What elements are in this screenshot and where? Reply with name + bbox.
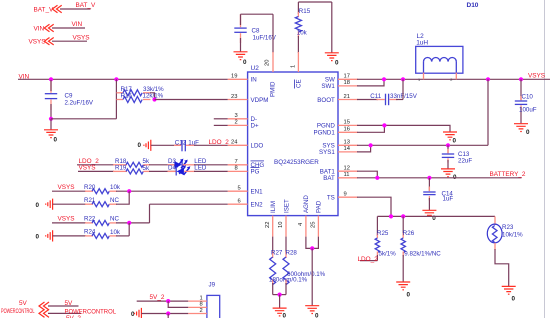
svg-text:R25: R25 [377,230,389,237]
svg-text:15: 15 [344,120,350,126]
wire D3 to pin 7 [183,164,196,166]
svg-text:25: 25 [311,222,317,228]
svg-text:BAT_V: BAT_V [34,7,55,14]
ground 0 (C14) [422,210,436,222]
svg-text:VIN: VIN [72,21,83,28]
svg-text:EN2: EN2 [251,202,264,209]
svg-text:4: 4 [298,222,304,226]
ground 0 (R15) [325,53,339,67]
node TS drop [389,214,393,218]
pin 6 EN2 [228,203,248,205]
resistor R21 [84,197,119,207]
ground 0 (LDO row, sideways) [138,140,182,151]
wire R15 top to ground [331,2,333,53]
ground 0 (R26) [396,282,410,299]
ground 0 (J9, sideways) [131,308,188,318]
wire EN2 down to R22 row [149,204,151,223]
pin 16 PGND1 [338,131,358,133]
wire R23 to ground [495,249,509,286]
node VDPM [152,97,156,101]
svg-text:1: 1 [200,295,203,301]
svg-text:R20: R20 [84,184,96,191]
wire R18 to D3 [149,164,176,166]
svg-text:D10: D10 [467,2,479,9]
wire R27/R28 join [273,294,286,296]
svg-text:VSYS: VSYS [73,34,90,41]
svg-text:17: 17 [344,74,350,80]
node VIN/C9 [49,77,53,81]
svg-text:10: 10 [278,222,284,228]
svg-text:R22: R22 [84,216,96,223]
svg-text:2: 2 [450,78,452,82]
svg-text:VSYS: VSYS [58,184,75,191]
svg-text:5k: 5k [143,165,150,172]
ground 0 (R24 row, sideways) [36,230,87,241]
svg-text:20: 20 [265,60,271,66]
node SYS/C13 [446,143,450,147]
capacitor C13 [442,145,473,168]
svg-text:1: 1 [291,65,297,68]
wire to ground [279,295,281,308]
svg-text:14: 14 [344,146,351,152]
wire PGND net [357,125,450,131]
pin 14 SYS1 [338,151,358,153]
resistor R16 [116,93,163,103]
svg-text:VSYS: VSYS [29,39,46,46]
svg-text:BAT_V: BAT_V [76,2,97,9]
wire D+ stub [214,124,228,126]
svg-text:R23: R23 [502,224,514,231]
svg-text:22uF: 22uF [458,158,472,165]
svg-text:C12: C12 [175,139,187,146]
svg-text:VIN: VIN [34,26,45,33]
svg-text:BQ24253RGER: BQ24253RGER [274,159,319,166]
pin 20 PMID [272,52,274,72]
ground 0 (C8) [234,52,248,66]
svg-text:PGND1: PGND1 [313,130,335,137]
ground 0 (R21 row, sideways) [36,199,87,210]
resistor R27 [269,237,308,295]
pin 8 [188,306,207,308]
pin 22 ILIM [272,216,274,237]
svg-text:ISET: ISET [283,199,290,213]
svg-text:5V: 5V [65,300,74,307]
svg-text:AGND: AGND [303,195,310,213]
node PGND [382,123,386,127]
svg-text:BATTERY_2: BATTERY_2 [490,171,526,178]
svg-text:R28: R28 [286,250,298,257]
wire C12 to pin 24 [194,144,228,146]
svg-text:2.2uF/16V: 2.2uF/16V [65,99,94,106]
svg-text:VSYS: VSYS [79,165,96,172]
svg-text:21: 21 [344,94,350,100]
thermistor R23 [487,216,523,250]
svg-text:5V: 5V [19,300,28,307]
inductor L2 [416,33,463,82]
svg-text:0: 0 [335,60,339,67]
svg-text:TS: TS [327,195,335,202]
svg-text:10k/1%: 10k/1% [502,232,523,239]
wire SW net [357,78,550,80]
resistor R20 [84,184,121,194]
pin 13 SYS [338,144,358,146]
pin 4 AGND [305,216,307,237]
pin 19 IN [228,78,248,80]
svg-text:8: 8 [235,166,238,172]
wire SYS1 link [357,145,371,152]
pin 11 BAT [338,177,358,179]
ground 0 (C9) [44,119,58,144]
pin 8 PG [228,170,248,172]
svg-text:LED: LED [194,165,207,172]
svg-text:24: 24 [231,140,238,146]
svg-text:VSYS: VSYS [58,216,75,223]
svg-text:CE: CE [295,79,302,88]
svg-text:5V_2: 5V_2 [150,294,165,301]
wire D- stub [214,118,228,120]
capacitor C11 [357,93,418,105]
svg-text:LDO: LDO [251,143,264,150]
resistor R26 [401,216,441,281]
pin 2 [188,313,207,315]
svg-text:10k: 10k [110,184,121,191]
svg-text:0: 0 [512,296,516,303]
node VIN/divider [114,77,118,81]
svg-text:J9: J9 [209,282,216,289]
pin 10 ISET [285,216,287,237]
wire VDPM to pin 23 [155,99,228,101]
pin 15 PGND [338,124,358,126]
ground 0 (R27/R28) [273,308,287,318]
svg-text:6: 6 [238,199,241,205]
svg-text:5k/1%: 5k/1% [379,251,397,258]
pin 18 SW1 [338,85,358,87]
off-page connector VSYS [29,38,88,46]
svg-text:NC: NC [110,216,119,223]
resistor R18 [113,158,150,168]
wire down to pin 7 [167,314,169,318]
svg-text:LDO_2: LDO_2 [358,256,379,263]
LED D3 [168,158,207,169]
resistor R19 [113,164,150,174]
node SW/VSYS drop [486,77,490,81]
node SW/C11 [401,77,405,81]
ground 0 (C10) [514,124,530,137]
svg-text:R19: R19 [115,164,127,171]
net label LDO_2 (R25) [360,260,377,262]
svg-text:SYS1: SYS1 [319,149,335,156]
svg-text:VDPM: VDPM [251,97,269,104]
svg-text:23: 23 [231,94,237,100]
resistor R28 [283,237,326,295]
resistor R17 [116,86,164,100]
svg-text:16: 16 [344,127,350,133]
node SYS/SYS1 [369,143,373,147]
wire VSYS to R22 [52,222,86,224]
svg-text:VSYS: VSYS [528,72,545,79]
pin 17 SW [338,78,358,80]
node BAT/BAT1 [375,176,379,180]
ground 0 (R23) [502,286,516,302]
node AGND/PAD [310,246,314,250]
svg-text:LDO_2: LDO_2 [209,139,230,146]
node BAT/C14 [427,176,431,180]
svg-text:IN: IN [251,77,257,84]
svg-text:7: 7 [235,159,238,165]
svg-text:19: 19 [231,74,237,80]
capacitor C8 [234,14,276,51]
wire 5V_2 [137,300,189,302]
ground 0 (C13) [441,169,457,181]
wire AGND/PAD join [306,237,319,249]
wire CE [297,36,299,53]
wire to pin 8 [168,301,188,307]
op-amp U2 BQ24253RGER [228,52,358,237]
svg-text:600ohm/0.1%: 600ohm/0.1% [287,271,326,278]
pin 1 [188,300,207,302]
svg-text:22: 22 [265,222,271,228]
svg-text:10k: 10k [110,229,121,236]
wire R24 to node [116,235,129,237]
resistor R15 [295,2,331,38]
svg-text:0: 0 [36,234,40,241]
capacitor C10 [515,79,537,123]
page border right [544,0,546,318]
node 5V_2 [166,299,170,303]
svg-text:PG: PG [251,169,260,176]
svg-text:U2: U2 [251,65,260,72]
wire VSYS to R20 [52,190,86,192]
svg-text:D+: D+ [251,123,259,130]
pin 1 CE [297,52,299,72]
svg-text:0: 0 [54,137,58,144]
svg-text:1uH: 1uH [416,39,428,46]
node SW/SW1 [382,77,386,81]
svg-text:PAD: PAD [316,200,323,213]
wire PGND1 link [357,125,384,132]
svg-text:R27: R27 [271,250,283,257]
wire R21 up to EN1 node [116,191,129,204]
wire SW1 link [357,79,384,86]
svg-text:SW1: SW1 [321,83,335,90]
svg-text:ILIM: ILIM [270,201,277,213]
svg-text:3: 3 [235,113,238,119]
svg-text:11: 11 [344,172,350,178]
svg-text:18: 18 [344,80,350,86]
off-page connector VIN [34,24,86,32]
node R27/R28 [278,293,282,297]
svg-text:0: 0 [315,313,319,318]
wire R22 row to EN2 drop [116,222,150,224]
svg-text:0: 0 [36,202,40,209]
svg-text:0: 0 [526,129,530,136]
svg-text:C10: C10 [522,94,534,101]
svg-text:33nF/15V: 33nF/15V [390,93,418,100]
node C9 bottom [49,117,53,121]
pin 21 BOOT [338,99,358,101]
svg-text:12: 12 [344,166,350,172]
svg-text:R21: R21 [84,197,96,204]
svg-text:0: 0 [407,292,411,299]
wire TS pin to drop [357,197,391,216]
svg-text:C8: C8 [252,27,260,34]
pin 25 PAD [317,216,319,237]
wire EN2 to pin 6 [150,203,228,205]
svg-text:5k: 5k [143,158,150,165]
wire node down to R24 [128,223,130,236]
svg-text:2: 2 [200,308,203,314]
node R22/R24 [127,221,131,225]
ground 0 (AGND) [305,306,319,318]
svg-text:10k: 10k [297,30,308,37]
wire VIN rail [18,78,228,80]
capacitor C12 [174,139,199,151]
svg-text:BAT: BAT [323,175,335,182]
ground 0 (PGND) [443,132,457,145]
pin 3 D- [228,118,248,120]
svg-text:9: 9 [344,192,347,198]
wire LDO_2 to R18 [77,164,114,166]
svg-text:R24: R24 [84,229,96,236]
pin 12 BAT1 [338,170,358,172]
wire VSYS drop [487,79,489,145]
svg-text:1uF: 1uF [443,195,454,202]
wire R19 to D4 [149,170,176,172]
connector J9 [188,282,220,318]
wire SYS net [357,144,488,146]
svg-text:EN1: EN1 [251,189,264,196]
svg-text:POWERCONTROL: POWERCONTROL [1,308,35,315]
svg-text:9.82k/1%/NC: 9.82k/1%/NC [404,251,441,258]
wire D4 to pin 8 [184,170,195,172]
svg-text:D4: D4 [168,165,176,172]
svg-text:13: 13 [344,140,350,146]
capacitor C9 [45,80,94,119]
svg-text:BOOT: BOOT [317,97,335,104]
pin 24 LDO [228,144,248,146]
svg-text:NC: NC [110,197,119,204]
capacitor C14 [423,178,453,210]
wire to ground [311,248,313,305]
svg-text:2: 2 [235,120,238,126]
LED D4 [168,165,207,176]
pin 5 EN1 [228,190,248,192]
svg-text:R26: R26 [403,230,415,237]
node TS/R26 [401,214,405,218]
resistor R24 [84,229,121,239]
wire VSYS to R19 [78,170,114,172]
svg-text:0: 0 [283,313,287,318]
wire C9 bottom to rail [51,118,116,120]
svg-text:R15: R15 [299,8,311,15]
wire TS net [377,215,495,217]
node EN1 [127,189,131,193]
resistor R25 [375,216,396,260]
svg-text:0: 0 [131,311,135,318]
pin 7 CHG [228,164,248,166]
off-page connector POWERCONTROL [1,308,81,317]
node SW/C10 [519,77,523,81]
svg-text:C11: C11 [370,93,381,100]
pin 2 D+ [228,124,248,126]
svg-text:0: 0 [243,59,247,66]
node gnd row [166,311,170,315]
svg-text:100uF: 100uF [519,107,537,114]
wire R20 to pin 5 [116,190,228,192]
pin 23 VDPM [228,99,248,101]
svg-text:5: 5 [238,186,241,192]
svg-text:1: 1 [418,78,420,82]
wire BAT1 link [357,171,377,178]
pin 9 TS [338,196,358,198]
off-page connector BAT_V [34,5,91,13]
svg-text:8: 8 [200,302,203,308]
wire PMID [272,14,274,53]
wire divider rail vertical [115,79,117,119]
svg-text:0: 0 [453,138,457,145]
wire BAT net [357,177,522,179]
svg-text:0: 0 [138,142,142,149]
wire C11 up to SW [402,79,404,99]
svg-text:R16: R16 [121,93,133,100]
off-page connector 5V [19,300,79,310]
svg-text:PMID: PMID [269,81,276,97]
resistor R22 [84,216,119,226]
